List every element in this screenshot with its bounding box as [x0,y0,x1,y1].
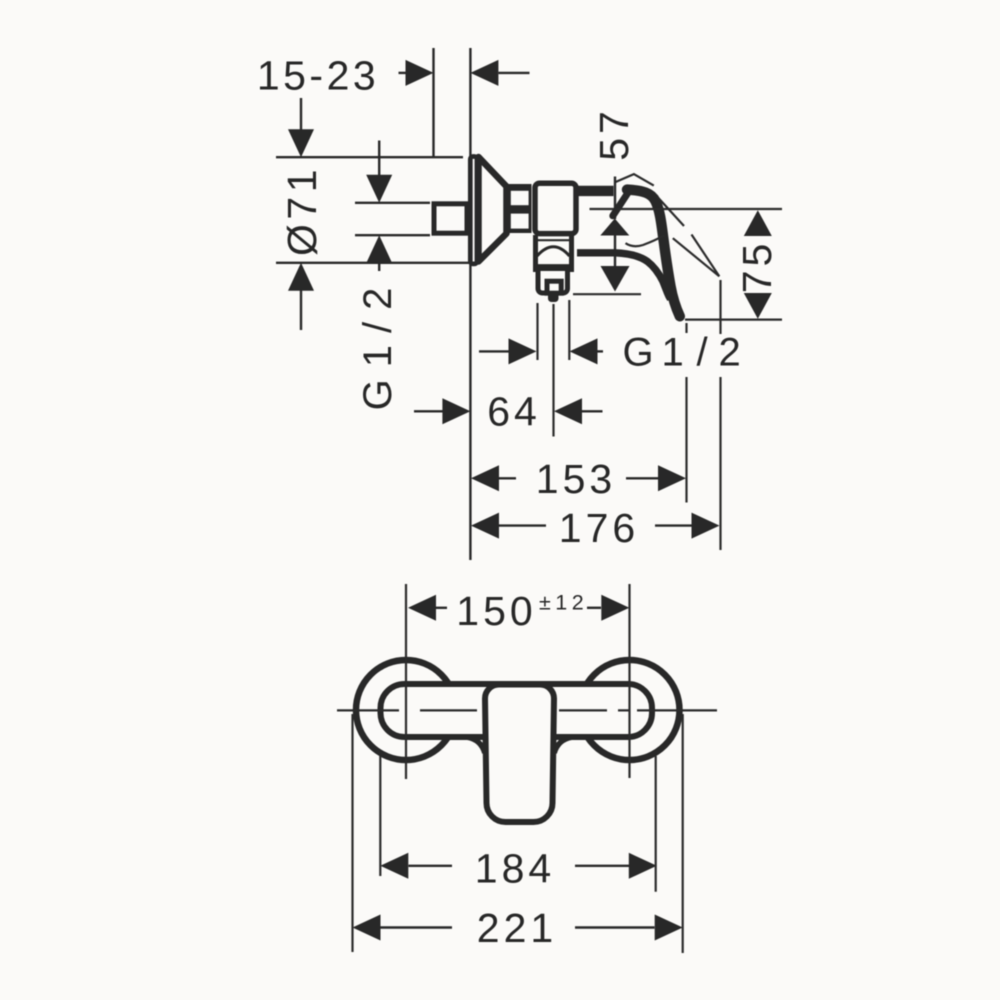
svg-text:184: 184 [475,846,555,892]
front view extension lines [353,714,683,953]
extension line x=686 (153) [685,323,687,503]
svg-text:57: 57 [591,107,637,161]
dimension G1/2 top (hose thread) [479,331,741,375]
handle thin outline: lower edge [626,235,720,276]
central column (handle front) [485,685,554,823]
svg-text:75: 75 [734,240,780,294]
svg-text:±12: ±12 [539,591,588,615]
nut inner square [547,281,561,293]
extension line x=720 (176) [719,280,721,550]
supply pipe stub [434,204,467,233]
handle pivot top bar [576,186,614,196]
bar-column fillets [467,737,572,753]
leader line handle bottom [573,293,641,295]
svg-text:G1/2: G1/2 [623,331,741,375]
dimension Ø71 [276,98,470,330]
svg-text:15-23: 15-23 [257,53,379,99]
wall back line [432,48,434,157]
dimension 221 [353,905,683,951]
leader line tail bottom [685,319,782,321]
dimension 176 [471,505,720,551]
right wall flange circle [580,660,680,760]
center lines [337,584,717,779]
svg-text:176: 176 [559,505,639,551]
handle lever tip wedge [613,193,628,216]
hose nut [538,269,568,294]
cartridge housing [535,183,576,233]
escutcheon (wall plate, edge view) [470,157,477,264]
svg-text:150: 150 [456,588,536,634]
svg-text:Ø71: Ø71 [279,165,325,256]
connection block [506,184,532,233]
handle pivot hook (lower) [577,253,671,299]
left wall flange circle [356,660,456,760]
dimension 64 [414,389,603,435]
handle thin outline: top peak [615,174,654,186]
spout section below housing [536,235,572,272]
escutcheon cone [479,157,507,262]
dimension G1/2 left (supply pipe) [355,141,430,411]
svg-text:64: 64 [487,389,541,435]
extension lines under hose connection [538,300,570,437]
vertical centerline right [628,584,630,778]
body bar [381,684,653,737]
horizontal centerline dashes [337,709,717,711]
vertical centerline left [405,584,407,779]
handle lever band [627,190,680,317]
handle thin outline: upper diagonal segments [658,197,720,276]
leader line top (handle level) [590,208,783,210]
wall front line [469,48,471,560]
dimension 57 [591,107,637,291]
hose stem tip [548,296,559,303]
svg-text:153: 153 [536,456,616,502]
dimension 75 [734,210,780,319]
dimension 15-23 [257,53,530,99]
dimension 150 ±12 [408,588,629,634]
svg-text:221: 221 [477,905,557,951]
svg-text:G1/2: G1/2 [356,276,400,411]
dimension 184 [380,846,657,892]
dimension 153 [471,456,686,502]
